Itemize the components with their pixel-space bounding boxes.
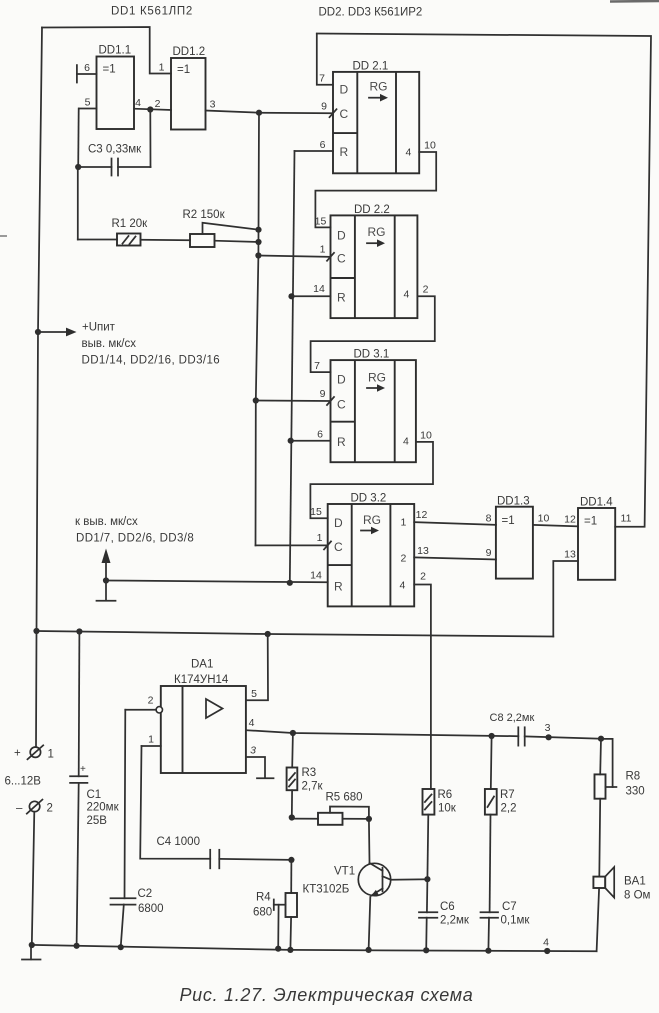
svg-text:DD 2.2: DD 2.2	[354, 204, 390, 216]
svg-text:15: 15	[310, 506, 322, 518]
svg-text:2,2: 2,2	[501, 803, 517, 815]
svg-text:1: 1	[317, 532, 323, 544]
svg-text:2,2мк: 2,2мк	[440, 915, 470, 927]
svg-text:9: 9	[320, 388, 326, 400]
wire left supply vertical	[37, 28, 43, 632]
svg-text:1: 1	[148, 734, 154, 746]
svg-text:10к: 10к	[438, 803, 457, 815]
svg-text:15: 15	[315, 216, 327, 228]
svg-text:7: 7	[314, 360, 320, 372]
wire DA1 pin 3 to ground	[246, 745, 274, 779]
register DD3.2	[328, 493, 415, 607]
svg-text:DD 2.1: DD 2.1	[353, 61, 389, 73]
svg-text:6800: 6800	[138, 903, 164, 915]
wire DD3.2 output 1 to DD1.3 pin 8	[414, 509, 496, 525]
svg-text:С3 0,33мк: С3 0,33мк	[88, 144, 142, 156]
svg-text:+Uпит: +Uпит	[82, 322, 116, 334]
wire pin 5	[79, 97, 97, 109]
wire bottom ground rail	[29, 937, 597, 955]
svg-text:+: +	[80, 764, 86, 775]
svg-text:2: 2	[420, 571, 426, 583]
svg-text:3: 3	[250, 745, 256, 757]
svg-text:C: C	[337, 252, 346, 266]
svg-text:=1: =1	[584, 516, 597, 528]
svg-text:2: 2	[155, 98, 161, 110]
resistor R1	[78, 167, 190, 246]
wire DD2.1 D input	[317, 34, 333, 85]
svg-text:Рис. 1.27. Электрическая схема: Рис. 1.27. Электрическая схема	[179, 985, 473, 1005]
wire DD1.4 pin 13 input from power rail	[553, 549, 578, 637]
svg-text:–: –	[16, 803, 23, 815]
svg-text:3: 3	[210, 99, 216, 111]
svg-text:RG: RG	[370, 80, 388, 94]
wire clock bus	[253, 110, 262, 546]
svg-text:R8: R8	[626, 771, 641, 783]
svg-text:10: 10	[420, 430, 432, 442]
svg-text:DD1.3: DD1.3	[497, 496, 530, 508]
svg-text:D: D	[337, 229, 346, 243]
terminal 2 minus	[16, 800, 53, 946]
svg-text:1: 1	[48, 749, 54, 761]
svg-text:DD1/14, DD2/16, DD3/16: DD1/14, DD2/16, DD3/16	[82, 355, 221, 367]
svg-text:R: R	[337, 435, 346, 449]
svg-text:=1: =1	[502, 515, 515, 527]
capacitor C2	[111, 710, 164, 947]
svg-text:R2 150к: R2 150к	[183, 209, 226, 221]
svg-text:3: 3	[545, 722, 551, 734]
wire pin4 to pin2	[134, 97, 171, 113]
svg-text:7: 7	[319, 73, 325, 85]
svg-text:220мк: 220мк	[87, 802, 120, 814]
svg-text:DD1.1: DD1.1	[99, 45, 132, 57]
svg-text:RG: RG	[368, 371, 386, 385]
gate DD1.2	[171, 46, 206, 130]
pin 6 tie bar	[76, 65, 78, 82]
svg-text:13: 13	[564, 549, 576, 561]
svg-text:6: 6	[320, 139, 326, 151]
svg-text:R: R	[337, 291, 346, 305]
resistor R2	[183, 209, 259, 247]
svg-text:D: D	[340, 83, 349, 97]
svg-text:14: 14	[313, 283, 325, 295]
wire pin 3	[206, 99, 260, 113]
wire DD3.2 output 2 to DD1.3 pin 9	[414, 545, 496, 560]
svg-text:5: 5	[251, 688, 257, 700]
resistor R6	[423, 789, 457, 882]
wire reset bus	[287, 151, 295, 586]
svg-text:=1: =1	[103, 64, 116, 76]
gate DD1.1	[97, 45, 135, 130]
wire DD2.2 output to DD3.1 D	[311, 284, 435, 373]
svg-text:4: 4	[404, 289, 410, 301]
svg-text:DD1.2: DD1.2	[173, 46, 206, 58]
svg-text:4: 4	[400, 580, 406, 592]
scan artifact top right	[610, 0, 659, 3]
svg-text:9: 9	[321, 101, 327, 113]
svg-text:КТ3102Б: КТ3102Б	[303, 884, 350, 896]
DA1 pin 1 input	[142, 734, 161, 747]
capacitor C7	[481, 901, 531, 951]
svg-text:12: 12	[416, 509, 428, 521]
svg-text:C: C	[334, 540, 343, 554]
svg-text:25В: 25В	[87, 815, 108, 827]
svg-text:VT1: VT1	[334, 866, 355, 878]
wire DD3.1 C input	[256, 388, 334, 405]
gate DD1.4	[578, 497, 615, 580]
svg-text:C2: C2	[138, 888, 153, 900]
gate DD1.3	[496, 496, 533, 579]
svg-text:4: 4	[249, 717, 255, 729]
svg-text:9: 9	[486, 547, 492, 559]
capacitor C4	[140, 746, 291, 868]
svg-text:4: 4	[403, 436, 409, 448]
svg-text:R4: R4	[256, 892, 271, 904]
svg-text:6...12В: 6...12В	[5, 776, 42, 788]
svg-text:2: 2	[47, 803, 53, 815]
wire DD2.1 output to DD2.2 D	[315, 140, 437, 228]
wire DD3.1 output to DD3.2 D	[310, 430, 433, 519]
wire register feedback top rail	[317, 34, 651, 527]
svg-text:680: 680	[253, 907, 272, 919]
wire DD2.2 R input	[292, 283, 331, 296]
supply tap +Upit	[35, 322, 220, 367]
svg-text:0,1мк: 0,1мк	[501, 915, 531, 927]
svg-text:C1: C1	[87, 789, 102, 801]
svg-text:R: R	[334, 580, 343, 594]
transistor VT1	[303, 819, 428, 950]
ground below reset tap	[97, 581, 116, 601]
capacitor C6	[419, 879, 470, 950]
wire DD3.2 C input	[256, 532, 332, 549]
wire DD3.1 R input	[291, 429, 331, 441]
svg-text:330: 330	[626, 786, 645, 798]
svg-text:DD2. DD3 К561ИР2: DD2. DD3 К561ИР2	[319, 7, 423, 19]
reset tap node with up arrow	[75, 516, 328, 584]
svg-text:+: +	[14, 748, 21, 760]
svg-text:DD 3.1: DD 3.1	[354, 349, 390, 361]
svg-text:С8 2,2мк: С8 2,2мк	[490, 712, 535, 724]
svg-text:10: 10	[538, 513, 550, 525]
wire top-left feedback rail	[42, 27, 171, 74]
svg-text:DD1 К561ЛП2: DD1 К561ЛП2	[111, 6, 193, 18]
svg-text:к выв. мк/сх: к выв. мк/сх	[75, 516, 138, 528]
wire pin 6	[77, 62, 97, 74]
svg-text:2: 2	[148, 695, 154, 707]
svg-text:D: D	[337, 373, 346, 387]
svg-text:4: 4	[543, 937, 549, 949]
svg-text:8 Ом: 8 Ом	[624, 890, 651, 902]
svg-text:14: 14	[310, 570, 322, 582]
svg-text:13: 13	[417, 545, 429, 557]
svg-text:2: 2	[401, 553, 407, 565]
svg-text:8: 8	[486, 513, 492, 525]
terminal 1 plus	[14, 631, 54, 761]
svg-text:К174УН14: К174УН14	[174, 674, 229, 686]
svg-text:11: 11	[621, 513, 632, 525]
svg-text:DA1: DA1	[191, 659, 213, 671]
svg-text:1: 1	[320, 244, 326, 256]
svg-text:4: 4	[406, 147, 412, 159]
wire DD1.3 output to DD1.4 pin 12	[533, 513, 578, 527]
wire power rail	[33, 628, 553, 637]
svg-text:С6: С6	[440, 901, 455, 913]
svg-text:1: 1	[401, 517, 407, 529]
svg-text:RG: RG	[363, 513, 381, 527]
svg-text:DD 3.2: DD 3.2	[351, 493, 387, 505]
resistor R7	[485, 736, 517, 912]
op-amp DA1	[161, 659, 246, 774]
resistor R3	[287, 733, 324, 821]
svg-text:6: 6	[84, 62, 90, 74]
svg-text:4: 4	[135, 97, 141, 109]
register DD2.1	[333, 61, 419, 174]
svg-text:С4 1000: С4 1000	[157, 836, 200, 848]
svg-text:BA1: BA1	[624, 876, 646, 888]
svg-text:R1 20к: R1 20к	[112, 218, 149, 230]
svg-text:D: D	[334, 516, 343, 530]
register DD2.2	[331, 204, 418, 318]
scan artifact left edge	[0, 235, 7, 237]
wire DA1 pin 5 to power rail	[246, 634, 268, 700]
svg-text:R7: R7	[500, 789, 515, 801]
capacitor C3	[75, 109, 150, 176]
wire DD2.1 R input	[295, 139, 334, 151]
svg-text:DD1/7, DD2/6, DD3/8: DD1/7, DD2/6, DD3/8	[76, 533, 194, 545]
svg-text:6: 6	[317, 429, 323, 441]
ground bottom left	[22, 945, 41, 960]
svg-text:2: 2	[423, 284, 429, 296]
capacitor C8	[490, 712, 605, 746]
svg-text:C: C	[337, 398, 346, 412]
svg-text:12: 12	[564, 514, 576, 526]
svg-text:выв. мк/сх: выв. мк/сх	[82, 338, 137, 350]
wire DD2.1 C input	[259, 101, 337, 118]
wire DD2.2 C input	[258, 244, 334, 261]
svg-text:=1: =1	[177, 64, 190, 76]
svg-text:C: C	[340, 107, 349, 121]
svg-text:R3: R3	[302, 767, 317, 779]
wire DD3.2 output 4 down to R6	[414, 571, 431, 790]
svg-text:С7: С7	[502, 901, 517, 913]
svg-text:5: 5	[85, 97, 91, 109]
capacitor C1 polarized	[70, 632, 119, 946]
DA1 pin 2 input with inversion circle	[125, 695, 162, 714]
resistor R4 trimmer	[253, 857, 297, 950]
svg-text:2,7к: 2,7к	[302, 781, 324, 793]
wire DA1 pin 4 output rail	[246, 730, 518, 739]
loudspeaker BA1	[593, 867, 650, 951]
svg-text:DD1.4: DD1.4	[580, 497, 613, 509]
register DD3.1	[331, 349, 416, 463]
svg-text:R6: R6	[438, 789, 453, 801]
resistor R8 trimmer	[595, 739, 645, 877]
svg-text:1: 1	[159, 62, 165, 74]
svg-text:RG: RG	[368, 225, 386, 239]
svg-text:R5 680: R5 680	[326, 792, 363, 804]
resistor R5 trimmer	[292, 792, 372, 825]
svg-text:R: R	[340, 145, 349, 159]
svg-text:10: 10	[424, 140, 436, 152]
